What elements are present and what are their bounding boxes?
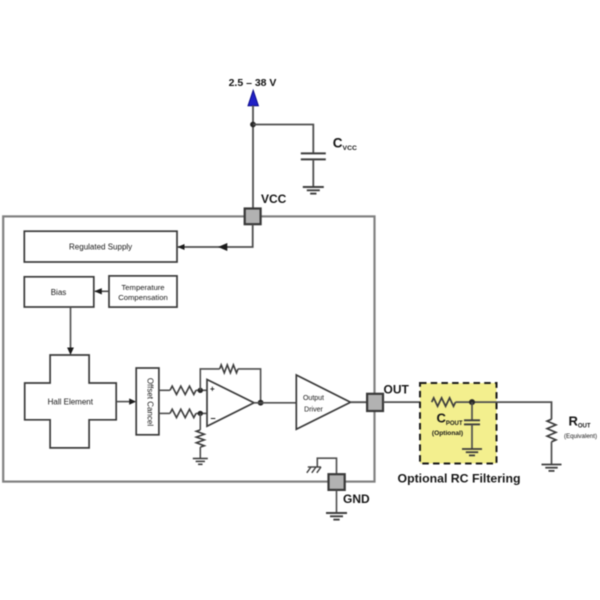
pin VCC	[245, 209, 261, 225]
svg-text:(Optional): (Optional)	[432, 430, 463, 437]
wire GND pin to ground	[336, 490, 338, 513]
svg-text:Regulated Supply: Regulated Supply	[69, 243, 132, 252]
Hall Element (cross shape)	[25, 355, 117, 448]
resistor (feedback)	[220, 365, 238, 373]
amplifier Output Driver	[296, 375, 350, 429]
wire Offset Cancel to R (bottom input)	[159, 412, 170, 414]
wire internal ground to GND pin	[317, 458, 336, 474]
wire R to op-amp + input	[196, 389, 207, 391]
wire Bias to Hall Element	[70, 307, 72, 350]
wire OUT pin to RC filter	[383, 401, 432, 403]
arrowhead into Bias	[94, 288, 102, 294]
wire R to ground	[199, 447, 201, 458]
supply arrow (blue, pointing up)	[248, 90, 259, 106]
IC block outline	[3, 216, 374, 481]
resistor (bottom op-amp input)	[170, 409, 196, 417]
block Offset Cancel (vertical text)	[136, 368, 159, 435]
svg-text:Temperature: Temperature	[121, 283, 164, 292]
wire Hall Element to Offset Cancel	[116, 401, 131, 403]
wire feedback right leg	[238, 369, 261, 403]
wire Offset Cancel to R (top input)	[159, 389, 170, 391]
wire - input junction down to R	[199, 413, 201, 430]
resistor (to ground)	[196, 430, 204, 447]
wire feedback left leg	[200, 369, 219, 390]
svg-text:Optional RC Filtering: Optional RC Filtering	[398, 472, 521, 486]
junction node (filter cap)	[469, 399, 475, 405]
svg-text:Bias: Bias	[51, 288, 67, 297]
wire R to op-amp - input	[196, 412, 207, 414]
block Regulated Supply	[24, 231, 177, 262]
ground (CPOUT)	[462, 449, 482, 455]
wire op-amp output to Output Driver	[254, 402, 296, 404]
pin OUT	[367, 394, 383, 411]
resistor (RC filter series)	[432, 398, 456, 406]
wire Output Driver to OUT pin	[351, 401, 368, 403]
wire junction to CVCC	[253, 125, 313, 154]
ground (ROUT)	[542, 465, 562, 471]
resistor ROUT	[547, 419, 556, 442]
wire VCC pin to Regulated Supply	[178, 224, 253, 247]
arrowhead at Regulated Supply input	[178, 244, 185, 250]
Optional RC Filtering highlight box	[420, 383, 497, 464]
svg-text:+: +	[210, 385, 215, 394]
capacitor CPOUT	[464, 420, 480, 424]
wire ROUT to ground	[551, 442, 553, 464]
block Bias	[24, 277, 94, 307]
ground (GND pin)	[326, 513, 347, 520]
junction node (op-amp output)	[258, 400, 264, 406]
junction node (op-amp - input)	[198, 411, 203, 416]
ground (CVCC)	[303, 187, 324, 194]
ground (op-amp input network)	[193, 459, 208, 465]
junction node supply/CVCC	[250, 122, 256, 128]
svg-text:GND: GND	[343, 492, 370, 506]
svg-text:Hall Element: Hall Element	[48, 397, 94, 406]
svg-text:Driver: Driver	[304, 406, 323, 413]
wire CVCC to ground	[312, 159, 314, 186]
svg-text:VCC: VCC	[261, 192, 287, 206]
arrowhead mid-wire into Regulated Supply	[218, 243, 227, 251]
svg-text:Compensation: Compensation	[118, 293, 168, 302]
resistor (top op-amp input)	[170, 386, 196, 394]
pin GND	[329, 474, 345, 490]
wire R to ROUT	[456, 402, 552, 419]
svg-text:2.5 – 38 V: 2.5 – 38 V	[229, 77, 277, 89]
block Temperature Compensation	[109, 276, 177, 307]
wire CPOUT to ground	[471, 424, 473, 448]
arrowhead into Offset Cancel	[129, 398, 136, 404]
chassis ground (internal)	[307, 467, 321, 473]
svg-text:(Equivalent): (Equivalent)	[564, 433, 597, 440]
wire supply to VCC pin	[252, 106, 254, 209]
svg-text:Offset Cancel: Offset Cancel	[146, 378, 155, 427]
op-amp (amplifier)	[207, 380, 254, 427]
capacitor CVCC	[301, 153, 326, 159]
svg-text:Output: Output	[303, 395, 324, 402]
wire Temperature Compensation to Bias	[95, 290, 109, 292]
svg-text:−: −	[210, 414, 215, 424]
wire junction to CPOUT	[471, 402, 473, 420]
junction node (op-amp + input)	[198, 388, 203, 393]
svg-text:OUT: OUT	[384, 383, 410, 397]
arrowhead into Hall Element	[67, 348, 74, 356]
